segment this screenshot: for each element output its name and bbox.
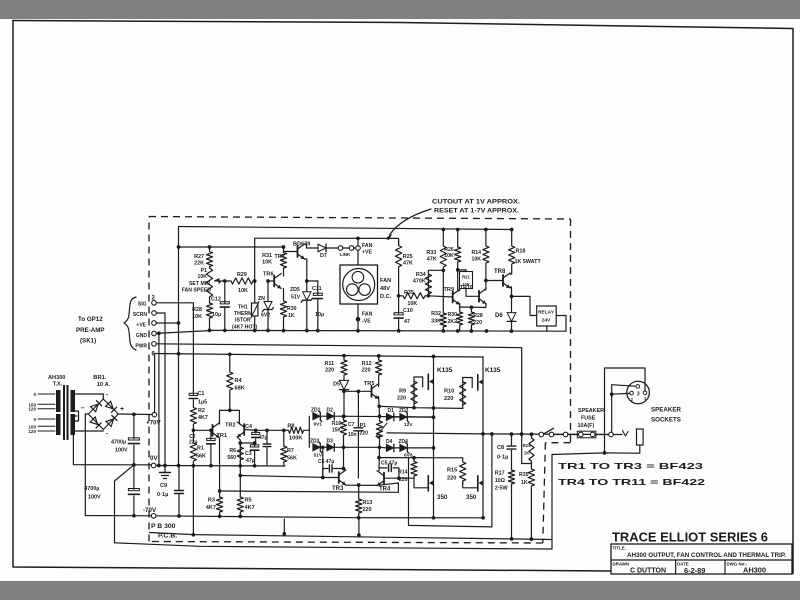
svg-text:C8: C8	[497, 445, 504, 451]
svg-text:TR6: TR6	[263, 271, 274, 277]
wire TR9 emitter to tail	[459, 304, 461, 308]
diode D5	[339, 380, 348, 389]
svg-text:10K: 10K	[262, 260, 272, 266]
capacitor C11 10u	[317, 281, 319, 295]
resistor R17 10R 2.5W zobel	[508, 468, 514, 539]
svg-text:10Ω: 10Ω	[495, 478, 506, 484]
node 0V junctions	[157, 464, 161, 468]
svg-text:TRACE ELLIOT SERIES 6: TRACE ELLIOT SERIES 6	[612, 531, 768, 545]
wire secondary centre tap join	[75, 411, 79, 421]
svg-text:68K: 68K	[235, 386, 245, 392]
svg-text:(SK1): (SK1)	[80, 338, 96, 345]
resistor R30 1K (TR6 emitter)	[280, 289, 286, 331]
wire TR5 emitter line to gate resistors	[379, 406, 463, 408]
wire +70V rail	[155, 354, 434, 357]
svg-text:C12: C12	[211, 297, 221, 303]
wire pin5 PWR long line to speaker	[156, 344, 521, 435]
resistor R2 4K7	[190, 406, 196, 430]
diode D3	[327, 444, 335, 452]
node R13/R32 junction	[441, 268, 445, 272]
capacitor C3 47u	[254, 443, 256, 446]
transistor TR8	[502, 275, 504, 286]
wire source column through bias rows down to lower mosfet area	[433, 417, 435, 448]
wire input line down to L2	[192, 466, 194, 535]
svg-text:R35: R35	[519, 472, 529, 478]
svg-text:SCRN: SCRN	[133, 312, 148, 318]
resistor R11 220	[341, 356, 347, 379]
svg-text:10K: 10K	[471, 257, 481, 263]
wire bridge - output down to -70 line	[85, 414, 151, 516]
svg-text:48V: 48V	[380, 286, 390, 292]
wire top bias row	[334, 415, 433, 418]
wire return up to XLR right pin	[605, 368, 646, 453]
svg-text:R14: R14	[471, 250, 481, 256]
svg-text:220: 220	[325, 368, 334, 374]
svg-text:R29: R29	[237, 272, 247, 278]
wire 0V rail	[154, 465, 285, 468]
svg-text:R10: R10	[444, 389, 454, 395]
resistor R10 220 gate	[460, 378, 466, 409]
node emitter centre	[357, 483, 361, 487]
svg-text:0·1µ: 0·1µ	[497, 455, 508, 461]
wire relay to ground rail	[556, 316, 566, 332]
transformer primary winding	[56, 390, 61, 412]
transistor TR7 BD679	[297, 246, 299, 257]
node TR1 base node	[192, 428, 196, 432]
svg-text:R31: R31	[262, 253, 272, 259]
potentiometer P1 10K SET MIN FAN SPEED	[206, 267, 212, 304]
svg-text:TR4 TO TR11 = BF422: TR4 TO TR11 = BF422	[558, 477, 706, 487]
svg-text:350: 350	[437, 494, 448, 501]
wire +70V terminal up to rail	[154, 354, 156, 413]
svg-text:6V2: 6V2	[261, 313, 270, 319]
svg-text:47K: 47K	[427, 257, 437, 263]
svg-text:R11: R11	[325, 361, 335, 367]
svg-text:THERM: THERM	[234, 311, 252, 317]
resistor R31 10K (TR6 collector load)	[280, 247, 286, 276]
wire R7 stub to L2	[283, 519, 285, 534]
resistor R28 10K	[206, 303, 212, 330]
resistor R9 220 gate	[411, 377, 417, 408]
transistor TR9	[452, 292, 454, 303]
svg-text:BR1.: BR1.	[93, 375, 107, 381]
svg-text:C4: C4	[245, 424, 252, 430]
wire TR7 emitter down	[305, 259, 307, 281]
svg-text:1K: 1K	[521, 480, 528, 486]
svg-text:C1: C1	[198, 391, 205, 397]
svg-text:D4: D4	[386, 439, 393, 445]
svg-text:100K: 100K	[289, 436, 302, 442]
svg-text:0: 0	[33, 392, 36, 397]
jack socket symbol	[637, 429, 644, 445]
svg-text:ZN: ZN	[258, 296, 265, 302]
svg-text:C DUTTON: C DUTTON	[630, 568, 666, 575]
svg-text:9V1: 9V1	[314, 422, 323, 428]
svg-text:220: 220	[473, 320, 482, 326]
svg-text:4700µ: 4700µ	[111, 440, 126, 446]
node R34 bottom	[427, 294, 431, 298]
diode D6	[511, 296, 513, 312]
capacitor first 4700u 100V	[133, 414, 135, 438]
svg-text:15K: 15K	[332, 428, 342, 434]
wire TR5 base line	[344, 390, 372, 392]
wire XLR feed up to top pin	[612, 385, 635, 432]
svg-text:R30: R30	[287, 306, 297, 312]
svg-text:C10: C10	[403, 308, 413, 314]
wire secondary AC bottom to bridge	[75, 430, 103, 432]
svg-text:R25: R25	[403, 254, 413, 260]
svg-text:TR1: TR1	[217, 433, 228, 439]
title block box	[611, 544, 792, 574]
svg-text:D6: D6	[495, 313, 503, 319]
svg-text:C6 47µ: C6 47µ	[318, 459, 334, 465]
svg-text:47µ: 47µ	[259, 435, 268, 441]
svg-text:22µ: 22µ	[189, 440, 198, 446]
svg-text:2·5W: 2·5W	[495, 486, 509, 492]
wire TR8 collector	[510, 272, 512, 274]
svg-text:10K: 10K	[197, 274, 207, 280]
svg-text:RELAY: RELAY	[538, 310, 555, 316]
wire pin2 SCRN down to 0V	[156, 313, 165, 466]
wire bottom return L1 loop	[409, 434, 492, 527]
svg-text:1µ5: 1µ5	[198, 400, 207, 406]
svg-text:R13: R13	[363, 500, 373, 506]
svg-text:2: 2	[631, 397, 634, 402]
wire TR4 base line to R14	[384, 477, 414, 479]
mosfet upper-left K135	[427, 374, 429, 389]
resistor R8 100K horizontal	[287, 427, 309, 433]
wire pin4 down	[158, 333, 160, 465]
wire +70V rail to FET2 drain	[434, 356, 484, 358]
wire R13a stub	[358, 518, 360, 535]
svg-text:D7: D7	[320, 253, 327, 259]
svg-text:TR5: TR5	[364, 381, 375, 387]
svg-text:4K7: 4K7	[206, 505, 216, 511]
svg-text:+VE: +VE	[136, 323, 146, 329]
svg-text:SPEAKER: SPEAKER	[578, 408, 604, 414]
wire TR1 emitter line to TR4 emitter	[220, 483, 399, 492]
svg-text:120: 120	[28, 429, 36, 434]
wire output speaker line	[387, 433, 611, 435]
wire TR7 base from R31 top	[284, 251, 298, 253]
wire fan-section inner top rail	[179, 227, 512, 230]
svg-text:TITLE.: TITLE.	[613, 546, 626, 551]
wire lower row right to column	[407, 447, 433, 449]
wire -70V rail	[152, 516, 484, 518]
svg-text:FAN: FAN	[362, 243, 373, 249]
svg-text:FUSE: FUSE	[581, 416, 596, 422]
resistor R4 68K	[227, 354, 233, 410]
resistor R18 1K 5WATT	[509, 230, 515, 273]
bridge diode top-right	[106, 401, 114, 409]
capacitor C5a small	[266, 430, 268, 443]
transistor TR3 driver	[338, 472, 340, 483]
svg-text:R7: R7	[287, 448, 294, 454]
resistor R5 4K7	[237, 497, 243, 517]
wire star ground diagonal to L3	[115, 465, 134, 543]
svg-text:D.C.: D.C.	[380, 294, 392, 300]
wire lower FET2 drain-source column	[482, 434, 484, 518]
svg-text:PRE-AMP: PRE-AMP	[76, 327, 105, 334]
svg-text:56K: 56K	[196, 454, 206, 460]
wire pin4 GND joins fan ground rail	[156, 331, 209, 334]
wire bridge + output to +70 terminal	[118, 413, 152, 416]
wire from fan line down to thermistor node	[254, 238, 256, 281]
svg-text:+VE: +VE	[362, 250, 372, 256]
wire lower FET1 gate	[414, 478, 427, 488]
svg-text:22K: 22K	[194, 261, 204, 267]
curly brace for connector	[124, 297, 136, 350]
fuse SPEAKER FUSE 10A(F)	[579, 432, 584, 437]
wire relay bottom to rail	[546, 326, 548, 331]
svg-text:R24: R24	[523, 443, 531, 448]
resistor R25 47K (fan voltage sense)	[396, 241, 402, 296]
svg-text:-70V: -70V	[143, 507, 157, 514]
svg-text:220: 220	[397, 396, 406, 402]
relay 24V box	[537, 306, 557, 326]
svg-text:P1: P1	[360, 423, 366, 429]
svg-text:BD679: BD679	[293, 242, 310, 248]
node R3 R5 C9 bottoms	[177, 514, 181, 518]
svg-text:SET MIN: SET MIN	[189, 281, 210, 287]
wire D7 to link	[326, 247, 339, 249]
wire TR7 collector to D7	[305, 244, 319, 248]
svg-text:+: +	[120, 406, 124, 413]
svg-text:6-2-89: 6-2-89	[684, 566, 705, 575]
zener ZD1 9V1	[313, 412, 321, 420]
svg-text:ZD1: ZD1	[311, 408, 321, 414]
resistor R27 22K	[206, 247, 212, 267]
svg-text:0: 0	[33, 417, 36, 422]
jack tip arrow mark	[623, 431, 629, 437]
svg-text:C3: C3	[245, 451, 252, 457]
bridge diode bottom-left	[90, 417, 98, 425]
svg-text:R21: R21	[462, 275, 470, 280]
svg-text:100V: 100V	[115, 448, 128, 454]
fan 48V DC box with blades	[340, 265, 378, 304]
svg-text:51V: 51V	[314, 453, 323, 459]
svg-text:D3: D3	[327, 439, 334, 445]
wire L3 up to socket return	[552, 453, 605, 549]
svg-text:K135: K135	[485, 367, 501, 374]
resistor R13 47K	[440, 230, 446, 271]
svg-text:51V: 51V	[291, 295, 301, 301]
svg-text:ZD2: ZD2	[310, 439, 320, 445]
wire pin3 +VE	[156, 322, 178, 324]
wire TR3 base from lower bias row	[323, 447, 339, 477]
transformer core	[63, 385, 65, 440]
svg-text:TH1: TH1	[238, 305, 248, 311]
terminal FAN +VE	[356, 246, 361, 251]
wire lower FET2 gate	[463, 481, 477, 488]
wire R26 node to R21 box resistor	[458, 269, 466, 271]
svg-text:C11: C11	[312, 286, 322, 292]
wire TR8 emitter down	[510, 287, 512, 296]
resistor R7 56K	[281, 430, 287, 466]
svg-text:TR9: TR9	[444, 287, 455, 293]
capacitor C1 1u5 input	[192, 392, 194, 395]
svg-text:ZD3: ZD3	[399, 408, 409, 414]
resistor R12 220	[376, 356, 382, 384]
svg-text:R15: R15	[447, 468, 457, 474]
capacitor C2 22u	[210, 430, 212, 439]
svg-text:220: 220	[444, 396, 453, 402]
resistor R21 10K (box style)	[460, 272, 473, 289]
wire bottom 0V return line L2	[150, 533, 553, 540]
wire TR9 base	[428, 296, 452, 297]
wire MOSFET2 drain-source column	[482, 357, 484, 434]
capacitor second 4700u 100V	[133, 465, 135, 490]
wire TR8 emitter to relay	[512, 296, 537, 315]
mosfet lower-left 350	[427, 476, 429, 491]
transistor TR6	[273, 276, 275, 287]
wire R9 top to MOSFET1 gate	[414, 377, 423, 387]
svg-text:10K: 10K	[444, 253, 454, 259]
wire fan +VE down to fan box	[357, 240, 359, 246]
zener diode ZN 6V2	[267, 281, 269, 301]
wire top row right to source column	[407, 416, 433, 418]
terminal 0V	[151, 463, 156, 468]
wire TR6 base	[268, 280, 274, 282]
node emitter tail	[470, 305, 474, 309]
svg-text:0V: 0V	[150, 455, 158, 462]
resistor R6 560 TR2 emitter	[237, 443, 243, 466]
svg-text:TR7: TR7	[274, 254, 285, 260]
svg-text:To GP12: To GP12	[78, 316, 103, 323]
capacitor C8 0.1u zobel	[511, 434, 513, 445]
diode D2	[327, 412, 335, 420]
svg-text:350: 350	[466, 494, 477, 501]
transistor TR4 driver	[383, 473, 385, 484]
capacitor C5 47u TR4	[379, 467, 387, 469]
link jumper	[338, 246, 343, 251]
svg-text:TR2: TR2	[225, 423, 236, 429]
wire fan-section bottom ground rail	[210, 329, 567, 332]
terminal speaker line output	[609, 432, 614, 437]
svg-text:AH300: AH300	[743, 566, 766, 575]
wire TR1 emitter down to R3	[219, 438, 221, 497]
wire MOSFET1 drain-source column	[433, 356, 435, 417]
svg-text:CUTOUT AT 1V APPROX.: CUTOUT AT 1V APPROX.	[432, 199, 520, 206]
svg-text:10 A.: 10 A.	[97, 382, 111, 388]
svg-text:R26: R26	[444, 247, 454, 253]
transistor TR10	[478, 291, 480, 302]
resistor R1 56K	[190, 430, 196, 465]
svg-text:FAN: FAN	[362, 312, 373, 318]
switch on speaker line	[539, 432, 544, 437]
svg-text:220: 220	[363, 507, 372, 513]
wire to XLR left pin	[612, 392, 630, 395]
node D5 bottom TR5 base node	[342, 389, 346, 393]
transformer primary input stubs	[38, 393, 55, 395]
resistor R3 4K7	[217, 497, 223, 517]
capacitor C4 47u	[255, 430, 257, 433]
diode D4 right lower	[386, 444, 394, 452]
capacitor C9 0.1u	[178, 466, 180, 490]
wire TR10 collector to TR8 base	[485, 281, 487, 291]
svg-text:R32: R32	[431, 311, 441, 317]
svg-text:DRAWN: DRAWN	[613, 562, 630, 567]
resistor R15 220 lower gate	[460, 458, 466, 484]
wire R10 top to MOSFET2 gate	[463, 378, 473, 388]
wire R21 to TR10 base	[466, 289, 479, 297]
wire sub-rail y=247	[179, 246, 284, 248]
resistor R34 470K	[425, 270, 431, 296]
svg-text:K135: K135	[437, 367, 453, 374]
node junction at 209.5,247	[208, 245, 212, 249]
svg-text:~: ~	[106, 393, 109, 399]
resistor R29 10K horizontal	[230, 278, 255, 284]
zener ZD3 12V	[400, 413, 408, 421]
resistor R28a 220 tail	[468, 307, 474, 330]
bridge rectifier BR1 diamond	[88, 399, 118, 430]
speaker line continues	[554, 434, 564, 436]
svg-text:T.X.: T.X.	[53, 382, 63, 388]
wire TR2 emitter line to TR3 base	[240, 476, 322, 478]
svg-text:GND: GND	[136, 333, 148, 339]
wire jack sleeve return	[605, 445, 640, 453]
node fan line taps	[356, 236, 360, 240]
wire lower gate drive line	[379, 457, 463, 459]
diode D1 right bias	[386, 413, 394, 421]
wire TR3 TR4 driver emitter join	[346, 483, 399, 485]
svg-text:4K7: 4K7	[198, 415, 208, 421]
svg-text:TR1 TO TR3 = BF423: TR1 TO TR3 = BF423	[558, 461, 704, 471]
wire fan supply line y=238	[255, 238, 399, 245]
wire TR5 collector to R12	[378, 384, 380, 387]
svg-text:220: 220	[359, 431, 368, 437]
wire secondary AC top to bridge	[75, 394, 103, 399]
dashed PB300 PCB boundary box	[149, 217, 571, 220]
svg-text:4K7: 4K7	[245, 505, 255, 511]
svg-text:R6: R6	[229, 448, 236, 454]
svg-text:R35: R35	[404, 290, 414, 296]
bridge diode bottom-right	[106, 419, 114, 427]
svg-text:+70V: +70V	[146, 420, 161, 427]
svg-text:100V: 100V	[88, 495, 101, 501]
svg-text:R30: R30	[447, 312, 457, 318]
bridge diode top-left	[91, 404, 99, 412]
wire D5 node down to top bias row	[343, 391, 345, 416]
svg-text:R5: R5	[245, 498, 252, 504]
svg-text:1K: 1K	[288, 313, 295, 319]
node TR6 base node	[253, 279, 257, 283]
svg-text:R27: R27	[194, 254, 204, 260]
terminal -70V	[151, 514, 156, 519]
resistor R35 10K horizontal	[399, 293, 429, 299]
node junction at 178.5,247	[177, 245, 181, 249]
capacitor C10 47	[398, 296, 400, 314]
svg-text:C9: C9	[160, 483, 167, 489]
transistor TR5	[371, 386, 373, 397]
resistor R14 10K	[483, 230, 489, 281]
svg-text:FAN SPEED: FAN SPEED	[182, 288, 212, 294]
wire TR5 emitter down to driver line	[378, 397, 381, 407]
svg-text:10K: 10K	[407, 301, 417, 307]
wire bottom bias row	[334, 446, 379, 448]
svg-text:47K: 47K	[403, 261, 413, 267]
svg-text:SPEAKER: SPEAKER	[651, 407, 681, 414]
svg-text:47µ: 47µ	[246, 458, 255, 464]
svg-text:TR3: TR3	[332, 486, 344, 492]
resistor R13a 220 driver emitters	[356, 485, 362, 518]
svg-text:TR8: TR8	[494, 269, 506, 275]
svg-text:24V: 24V	[542, 318, 551, 324]
svg-text:D1: D1	[388, 408, 395, 414]
thermistor TH1 4K7	[254, 281, 256, 302]
mosfet upper-right K135	[477, 375, 479, 390]
svg-text:10n: 10n	[348, 432, 357, 438]
